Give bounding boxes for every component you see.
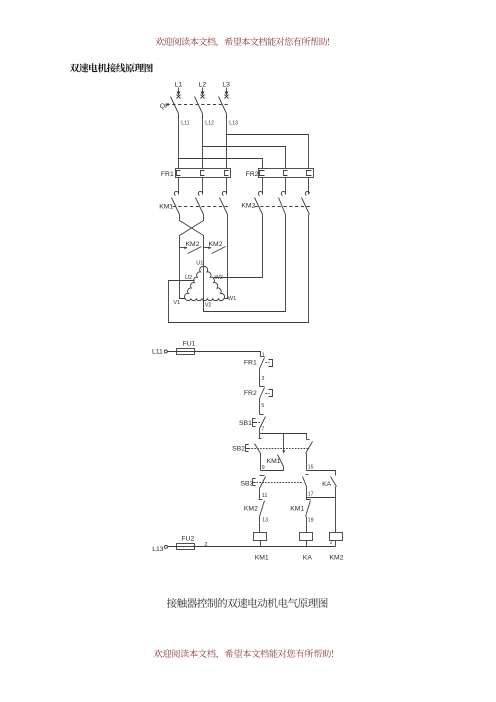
svg-text:W2: W2 [215, 275, 223, 281]
svg-text:13: 13 [262, 517, 268, 523]
svg-text:KM2: KM2 [209, 241, 223, 248]
svg-text:SB3: SB3 [241, 481, 254, 488]
svg-text:FR1: FR1 [244, 360, 257, 367]
pushbutton SB2 NO [232, 439, 309, 454]
svg-text:L13: L13 [152, 546, 164, 553]
heading 双速电机接线原理图 [70, 63, 153, 72]
svg-text:KM2: KM2 [241, 203, 255, 210]
svg-text:U1: U1 [196, 261, 203, 267]
control: terminal L11 [152, 349, 167, 356]
fuse FU2 [177, 536, 195, 550]
wire L12 branch to FR2 middle [203, 147, 286, 169]
thermal relay FR2 [246, 169, 314, 179]
wire KA rejoin [307, 497, 336, 499]
svg-text:5: 5 [261, 403, 264, 409]
svg-text:V2: V2 [205, 303, 212, 309]
node L2 [199, 82, 207, 99]
svg-text:17: 17 [308, 492, 314, 498]
coil KM1 [254, 533, 269, 562]
coil KM2 [330, 533, 344, 562]
svg-text:L12: L12 [205, 121, 214, 127]
svg-text:7: 7 [261, 426, 264, 432]
KM2 shorting contact a [180, 241, 202, 254]
wire SB2 top [259, 434, 261, 439]
svg-text:FR2: FR2 [244, 390, 257, 397]
svg-text:19: 19 [308, 517, 314, 523]
contact KM2 interlock NC [244, 500, 265, 533]
wire 11 [259, 489, 261, 500]
svg-text:FR2: FR2 [246, 171, 259, 178]
svg-text:SB2: SB2 [232, 446, 245, 453]
wire V2 run to KM2 pole2 [204, 215, 286, 312]
wire W2 riser to KM2 pole1 [214, 215, 263, 278]
svg-text:L11: L11 [152, 349, 163, 356]
wire 15 node [306, 454, 308, 471]
svg-text:FU2: FU2 [181, 536, 194, 543]
svg-text:KM1: KM1 [159, 203, 173, 210]
svg-text:SB1: SB1 [239, 420, 252, 427]
wire control top [168, 352, 261, 357]
svg-text:V1: V1 [173, 300, 180, 306]
breaker QF [160, 97, 229, 114]
wire 7 node [259, 429, 261, 434]
svg-text:L13: L13 [229, 121, 238, 127]
svg-text:KM2: KM2 [330, 554, 344, 561]
wire 5 [259, 399, 261, 415]
wire 3 [259, 369, 261, 387]
svg-text:W1: W1 [228, 296, 236, 302]
svg-text:FU1: FU1 [183, 341, 196, 348]
svg-text:2: 2 [330, 540, 333, 546]
node L1 [175, 82, 183, 99]
svg-text:15: 15 [308, 465, 314, 471]
contact FR2 NC [244, 387, 273, 399]
svg-text:L11: L11 [181, 121, 189, 127]
KM2 shorting contact b [204, 241, 226, 254]
wire KA branch top [307, 471, 336, 476]
wire FR2 to KM2 poles [263, 178, 309, 195]
wire L13 branch to FR2 right [227, 135, 309, 169]
motor winding delta [185, 266, 225, 300]
wire aux rejoin [261, 470, 284, 472]
contact FR1 NC [244, 357, 273, 369]
svg-text:KM1: KM1 [290, 505, 304, 512]
svg-text:FR1: FR1 [161, 171, 174, 178]
wire FR1 to KM1 poles [179, 178, 227, 195]
svg-text:KM2: KM2 [244, 505, 258, 512]
coil KA [300, 533, 313, 562]
thermal relay FR1 [161, 169, 231, 179]
caption 接触器控制的双速电动机电气原理图 [167, 598, 328, 608]
wire control bottom [168, 546, 336, 548]
wire KM1 pole3 down to W1 [225, 215, 228, 299]
wire L11 [178, 114, 180, 169]
contact SB2 NC right [306, 440, 313, 454]
svg-text:KM1: KM1 [255, 554, 269, 561]
node L3 [222, 82, 230, 99]
wire V1 stub [180, 298, 186, 299]
wire crossing X below KM1 [180, 215, 204, 312]
svg-text:KA: KA [322, 481, 332, 488]
svg-text:3: 3 [262, 376, 265, 382]
svg-text:11: 11 [262, 493, 267, 499]
svg-text:KA: KA [303, 554, 313, 561]
svg-text:KM2: KM2 [186, 241, 200, 248]
wire U2 loop to KM2 pole3 [169, 215, 309, 323]
control: terminal L13 [152, 545, 167, 553]
red welcome text bottom [154, 649, 333, 659]
wire L12 [202, 114, 204, 169]
wire L13 [226, 114, 228, 169]
svg-text:KM1: KM1 [267, 458, 281, 465]
contact KM1 interlock NC [290, 498, 310, 533]
wire L11 branch to FR2 left [179, 159, 263, 169]
pushbutton SB1 NC [239, 415, 266, 429]
red welcome text top [156, 37, 329, 47]
contactor KM1 main contacts [159, 191, 228, 214]
fuse FU1 [177, 341, 196, 355]
contact KM1 aux NO [267, 434, 286, 471]
wire 9 node [260, 454, 262, 471]
contactor KM2 main contacts [241, 191, 310, 214]
pushbutton SB3 NC [241, 476, 303, 489]
contact KA NO [322, 477, 336, 533]
contact SB3 NO right [303, 475, 309, 498]
wire branch to SB2-NC column [260, 434, 307, 440]
